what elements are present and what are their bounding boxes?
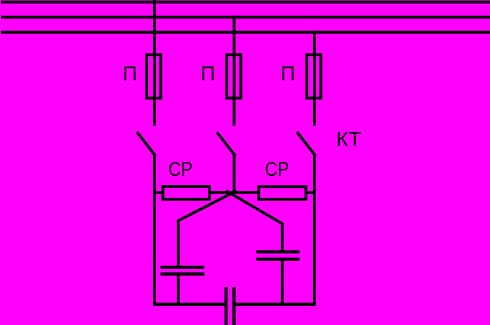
svg-text:КТ: КТ	[336, 129, 361, 151]
bus line 3	[1, 31, 490, 34]
wire: bottom rail right segment	[234, 303, 316, 306]
wire: phase 2 drop from bus 2 to switch	[233, 16, 236, 126]
capacitor C3 (center) left plate	[224, 287, 227, 325]
svg-text:СР: СР	[265, 159, 289, 181]
wire: phase 3 drop from bus 3 to switch	[313, 31, 316, 126]
resistor СР 2	[259, 187, 306, 200]
wire: horizontal resistor rail	[153, 191, 316, 194]
capacitor C1 (left) top plate	[161, 266, 205, 269]
wire: bottom rail left segment	[153, 303, 226, 306]
capacitor C2 (right) bottom plate	[256, 258, 299, 261]
switch KT blade pole 3	[297, 132, 316, 156]
fuse П phase 3	[307, 55, 321, 98]
wire: diagonal from rail to left capacitor	[178, 191, 237, 221]
wire: pole 3 lower vertical down to bottom bus	[313, 156, 316, 305]
wire: phase 1 drop from bus 1 to switch	[153, 0, 156, 126]
wire: pole 1 lower vertical down to bottom bus	[153, 156, 156, 305]
wire: right capacitor upper lead	[281, 223, 284, 252]
svg-text:П: П	[281, 64, 295, 86]
wire: left capacitor lower lead	[177, 274, 180, 305]
svg-text:П: П	[201, 64, 215, 86]
svg-text:П: П	[123, 64, 137, 86]
switch KT blade pole 2	[217, 132, 236, 156]
capacitor C2 (right) top plate	[256, 250, 299, 253]
wire: left capacitor upper lead	[177, 220, 180, 267]
svg-text:СР: СР	[168, 159, 192, 181]
wire: diagonal from rail to right capacitor	[226, 191, 282, 224]
wire: right capacitor lower lead	[281, 259, 284, 304]
fuse П phase 2	[227, 55, 241, 98]
wire: pole 2 lower vertical down to resistor wire	[233, 156, 236, 193]
bus line 1	[1, 1, 490, 4]
bus line 2	[1, 16, 490, 19]
resistor СР 1	[163, 187, 210, 200]
switch KT blade pole 1	[137, 132, 156, 156]
capacitor C3 (center) right plate	[232, 287, 235, 325]
fuse П phase 1	[147, 55, 161, 98]
capacitor C1 (left) bottom plate	[161, 272, 205, 275]
